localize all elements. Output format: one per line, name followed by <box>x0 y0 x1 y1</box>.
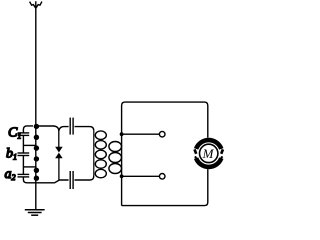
wire: secondary circuit loop (rounded box) <box>122 102 208 206</box>
wire: top terminal lead <box>122 133 160 135</box>
motor M <box>193 138 225 170</box>
capacitor C1 (plates) <box>18 133 30 136</box>
antenna <box>30 2 42 9</box>
wire: bottom horizontal from rail junction to condenser C (with jog) <box>27 180 69 183</box>
wire: tick from chain to rail (between b1 and a2) <box>23 166 36 168</box>
spark gap (two opposed arrows) <box>56 131 62 180</box>
wire: top condenser to primary <box>75 127 94 131</box>
capacitor (bottom condenser) <box>70 171 73 189</box>
node: secondary bottom junction <box>120 174 124 178</box>
node: tap stud 5 <box>34 168 39 173</box>
wire: bottom terminal lead <box>122 175 160 177</box>
terminal (bottom, open circle) <box>159 174 165 180</box>
inductor: transformer secondary (helix) <box>109 142 122 174</box>
capacitor (top condenser) <box>70 118 73 135</box>
wire: notch junction to top condenser <box>59 127 69 131</box>
terminal (top, open circle) <box>159 131 165 137</box>
node: secondary top junction <box>120 132 124 136</box>
capacitor b1 (plates) <box>18 153 30 156</box>
node: tap stud 1 <box>34 124 39 129</box>
svg-text:a2: a2 <box>5 167 16 182</box>
inductor: transformer primary (helix) <box>94 131 107 178</box>
wire: top horizontal from tap 1 to notch junction <box>37 126 59 131</box>
wire: left chain vertical with series capacitors <box>23 126 33 183</box>
node: tap stud 2 <box>34 135 39 140</box>
node: tap stud 4 <box>34 156 39 161</box>
wire: bottom condenser to primary <box>75 176 94 180</box>
svg-text:C1: C1 <box>8 126 21 141</box>
wire: antenna down-lead / main rail to ground <box>35 1 37 209</box>
node: tap stud 6 <box>34 176 39 181</box>
wire: tick from chain to rail (between C1 and b1) <box>23 144 36 146</box>
svg-text:M: M <box>202 146 215 161</box>
svg-text:b1: b1 <box>6 147 17 162</box>
node: tap stud 3 <box>34 145 39 150</box>
ground <box>25 210 45 216</box>
capacitor a2 (plates) <box>18 174 30 177</box>
